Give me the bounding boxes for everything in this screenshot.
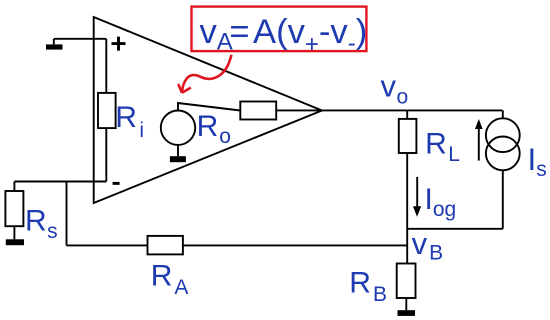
wire bottom feedback horizontal: [67, 244, 408, 246]
current arrow Iog: [413, 177, 421, 217]
wire Ri bottom to - rail: [105, 128, 107, 181]
ground (below RB): [398, 310, 416, 316]
wire RB bottom stub: [405, 298, 407, 310]
resistor RB: [397, 264, 416, 299]
annotation arrow (red squiggle): [178, 55, 231, 93]
resistor RL: [399, 119, 417, 153]
wire + rail down to Ri top: [105, 39, 107, 93]
resistor RA: [148, 236, 183, 255]
current arrow of Is (upward): [475, 119, 483, 161]
op-amp U1 plus input marker: [112, 37, 126, 51]
resistor Rs: [5, 182, 23, 240]
wire circle bottom stub: [177, 145, 179, 157]
wire Is bottom to vB node: [407, 228, 503, 230]
wire + input to ground: [54, 38, 107, 40]
op-amp U1 minus input marker: [113, 182, 120, 185]
ground (top-left, at + input): [46, 39, 63, 50]
ground (below Rs): [6, 239, 24, 245]
current source Is (two overlapping circles): [486, 110, 520, 228]
resistor Ri: [98, 93, 116, 128]
wire - input rail (horizontal): [14, 181, 106, 183]
dependent source U1 output (circle): [161, 111, 195, 145]
wire feedback vertical (left): [66, 182, 68, 246]
wire Ro to op-amp apex: [276, 109, 322, 111]
ground (below dependent source): [170, 156, 186, 162]
wire output vo horizontal: [322, 109, 502, 111]
op-amp U1 (triangle body): [94, 17, 322, 203]
wire circle top stub: [178, 103, 240, 111]
wire vo down to RL: [406, 110, 408, 119]
resistor Ro: [240, 102, 276, 120]
annotation box (red): [192, 7, 367, 52]
wire RL bottom down to RB: [406, 153, 408, 264]
